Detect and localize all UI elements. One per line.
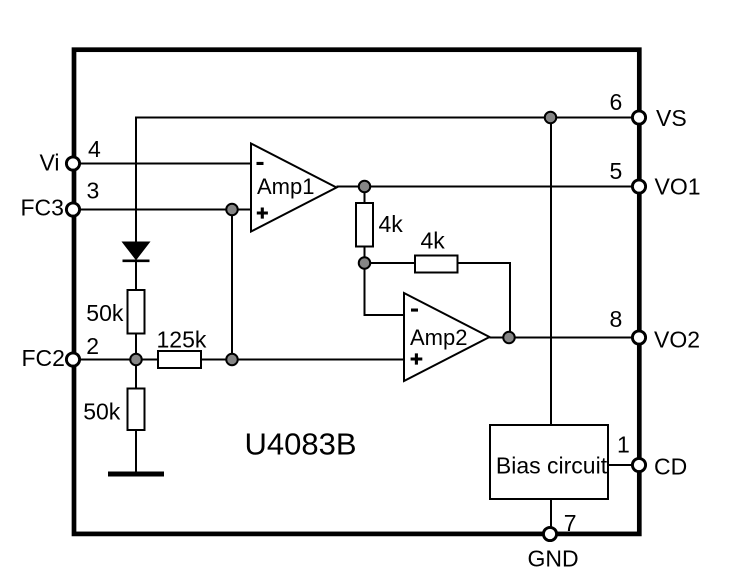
pin 5 terminal VO1	[632, 180, 645, 193]
wire: VS rail down to bias circuit	[550, 118, 552, 426]
svg-text:VO2: VO2	[654, 327, 700, 353]
Amp2 inverting mark	[411, 309, 418, 312]
svg-text:4k: 4k	[421, 228, 446, 254]
pin 7 terminal GND	[543, 527, 556, 540]
resistor 4k vertical	[356, 203, 373, 247]
svg-text:3: 3	[87, 178, 100, 204]
wire: Vi (pin 4) to Amp1 inverting input	[73, 163, 251, 165]
wire: bias circuit to GND (pin 7)	[550, 499, 552, 534]
wire: feedback node right through 4k down to Amp2 output	[365, 263, 511, 338]
svg-text:U4083B: U4083B	[245, 427, 357, 462]
svg-text:1: 1	[617, 432, 630, 458]
junction divider tap node	[130, 354, 142, 366]
Amp2 non-inverting mark	[411, 353, 423, 364]
svg-text:FC3: FC3	[21, 195, 64, 221]
ground	[108, 472, 164, 477]
svg-text:VS: VS	[656, 105, 687, 131]
Amp1 non-inverting mark	[257, 208, 268, 219]
pin 8 terminal VO2	[632, 331, 645, 344]
svg-text:4k: 4k	[379, 211, 404, 237]
diode D1 (anode up, cathode down)	[123, 242, 150, 260]
wire: feedback node down and right to Amp2 inverting input	[365, 263, 405, 315]
Amp1 inverting mark	[257, 162, 264, 165]
svg-text:Amp2: Amp2	[410, 325, 467, 350]
svg-text:2: 2	[86, 333, 99, 359]
junction VS rail node	[545, 112, 557, 124]
wire: FC2 (pin 2) row to Amp2 non-inverting input	[73, 359, 404, 361]
op-amp Amp2	[404, 293, 490, 381]
svg-text:GND: GND	[527, 546, 578, 572]
junction Amp2 output node	[503, 332, 515, 344]
wire: VS top rail from internal node to pin 6	[136, 118, 639, 243]
svg-text:5: 5	[610, 158, 623, 184]
svg-text:Vi: Vi	[40, 150, 60, 176]
resistor 4k horizontal	[415, 256, 458, 273]
resistor 125k	[158, 351, 201, 368]
wire: Amp1 output node down through 4k to feedback node	[364, 187, 366, 264]
resistor 50k upper	[128, 290, 145, 334]
pin 4 terminal Vi	[66, 157, 79, 170]
wire: bias circuit to CD (pin 1)	[608, 464, 639, 466]
svg-text:8: 8	[610, 306, 623, 332]
pin 1 terminal CD	[632, 458, 645, 471]
wire: Amp2 output to VO2 (pin 8)	[490, 337, 640, 339]
svg-text:125k: 125k	[157, 327, 207, 353]
bias circuit block	[490, 425, 608, 499]
IC body outline U4083B	[74, 50, 639, 534]
wire: divider branch below diode to ground	[135, 261, 137, 472]
pin 3 terminal FC3	[66, 203, 79, 216]
svg-text:CD: CD	[654, 454, 687, 480]
wire: Amp1 output to VO1 (pin 5)	[337, 186, 640, 188]
wire: vertical link FC3 node to FC2 node	[231, 210, 233, 360]
svg-text:FC2: FC2	[22, 345, 65, 371]
junction FC3 node	[226, 204, 238, 216]
svg-text:50k: 50k	[86, 300, 124, 326]
junction FC2 node	[226, 354, 238, 366]
resistor 50k lower	[128, 389, 145, 431]
svg-text:Amp1: Amp1	[257, 174, 314, 199]
svg-text:4: 4	[88, 136, 101, 162]
svg-text:7: 7	[564, 510, 577, 536]
svg-text:VO1: VO1	[655, 174, 701, 200]
svg-text:6: 6	[610, 89, 623, 115]
junction feedback node	[359, 257, 371, 269]
wire: FC3 (pin 3) to Amp1 non-inverting input	[73, 209, 251, 211]
junction Amp1 output node	[359, 181, 371, 193]
pin 2 terminal FC2	[66, 353, 79, 366]
pin 6 terminal VS	[632, 111, 645, 124]
svg-text:50k: 50k	[83, 399, 121, 425]
op-amp Amp1	[251, 144, 337, 232]
svg-text:Bias circuit: Bias circuit	[496, 453, 608, 479]
